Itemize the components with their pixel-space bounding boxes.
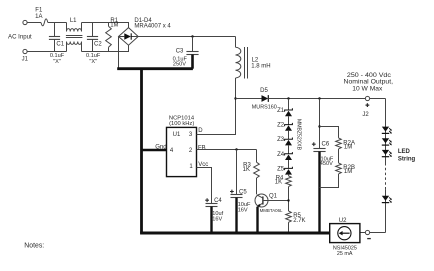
svg-text:1A: 1A	[35, 14, 42, 20]
pin 3	[189, 132, 193, 138]
label C4 rating 16V	[212, 217, 222, 223]
label Z3	[277, 137, 285, 143]
op-amp U1 NCP1014 body	[167, 127, 197, 176]
wire R4 to base node	[288, 187, 290, 211]
svg-text:FB: FB	[198, 145, 206, 151]
label C2 value 0.1uF	[86, 53, 101, 59]
wire Z4 to Z5	[288, 160, 290, 168]
label C1 class "X"	[53, 59, 61, 65]
polarity + of C5	[230, 190, 234, 194]
svg-text:Z4: Z4	[277, 152, 285, 158]
wire bridge positive output to L2	[138, 36, 235, 38]
label MURS160	[252, 105, 277, 111]
capacitor C4 (10uf 16V)	[206, 204, 218, 234]
svg-text:MURS160: MURS160	[252, 105, 277, 111]
label AC Input	[8, 33, 32, 40]
zener diode Z4	[285, 152, 293, 160]
label MMBZ52XXB (vertical)	[296, 119, 302, 150]
svg-text:U1: U1	[173, 132, 181, 138]
label Vcc	[198, 162, 208, 168]
label Z5	[277, 166, 285, 172]
LED 4	[382, 196, 392, 203]
label Gnd	[155, 144, 166, 150]
wire output line to Z1	[288, 99, 290, 111]
svg-text:1M: 1M	[110, 23, 118, 29]
wire ground vertical bus (thick)	[140, 69, 143, 234]
label R4	[276, 176, 284, 182]
label MMBTA06L	[260, 208, 283, 213]
svg-text:16V: 16V	[238, 208, 248, 214]
wire Z3 to Z4	[288, 145, 290, 153]
fuse F1	[41, 19, 48, 26]
label Notes:	[24, 241, 44, 250]
label J2	[362, 112, 369, 118]
label C6	[322, 141, 330, 147]
zener diode Z1	[285, 108, 293, 116]
node junction Q1 base / R4 / R5	[287, 199, 289, 201]
current regulator U2 NSI45025	[330, 224, 360, 243]
zener diode Z2	[285, 123, 293, 131]
wire Z5 to R4	[288, 175, 290, 176]
transistor Q1 MMBTA06L	[255, 194, 289, 207]
label 10 W Max	[352, 85, 383, 92]
label R5	[293, 213, 301, 219]
svg-text:250V: 250V	[173, 61, 186, 67]
svg-text:Notes:: Notes:	[24, 241, 44, 250]
label C3	[176, 49, 184, 55]
svg-text:1M: 1M	[344, 145, 352, 151]
resistor R5	[286, 211, 292, 222]
wire R2A to R2B	[338, 149, 340, 163]
label D (drain pin)	[198, 128, 203, 134]
label Z1	[277, 108, 285, 114]
label R3	[243, 162, 251, 168]
node junction C6 branch	[318, 97, 320, 99]
svg-text:U2: U2	[339, 218, 347, 224]
node junction FB/C5	[235, 148, 237, 150]
label C6 rating 450V	[320, 161, 333, 167]
svg-text:D: D	[198, 128, 203, 134]
wire output down through LED string (solid upper part)	[385, 99, 387, 164]
wire J2 negative to U2	[360, 232, 366, 234]
label F1	[35, 8, 43, 14]
svg-text:Q1: Q1	[269, 194, 278, 200]
svg-text:C5: C5	[239, 189, 247, 195]
svg-text:MMBZ52XXB: MMBZ52XXB	[296, 119, 302, 150]
label String (bold)	[398, 156, 416, 162]
resistor R2B	[336, 163, 342, 174]
wire LED4 to J2 negative terminal	[370, 232, 386, 234]
wire dashed end to LED 4	[385, 189, 387, 232]
node junction R2A branch	[318, 125, 320, 127]
connector J1 pin 1 (AC top terminal)	[23, 20, 27, 24]
bridge rectifier D1-D4	[119, 28, 139, 46]
wire bridge negative output down to ground bus	[118, 37, 120, 69]
wire drain pin 3 to L2/D5 node	[197, 99, 236, 135]
label J1	[22, 57, 29, 63]
label 25 mA	[337, 251, 353, 257]
label R5 value 2.7K	[293, 218, 305, 224]
label C2	[94, 41, 102, 47]
wire ground bus (thick)	[117, 67, 193, 70]
label D5	[260, 88, 268, 94]
capacitor C3	[186, 37, 198, 69]
label MRA4007 x 4	[134, 24, 171, 30]
svg-text:L1: L1	[70, 18, 77, 24]
label U1	[173, 132, 181, 138]
wire R5 to ground rail	[288, 222, 290, 233]
svg-text:16V: 16V	[212, 217, 222, 223]
svg-text:AC Input: AC Input	[8, 33, 32, 40]
label C3 rating 250V	[173, 61, 186, 67]
svg-text:Z2: Z2	[277, 123, 285, 129]
svg-text:1.8 mH: 1.8 mH	[251, 64, 270, 70]
label Z4	[277, 152, 285, 158]
capacitor C5 (10uF 16V)	[231, 150, 243, 234]
label C5 rating 16V	[238, 208, 248, 214]
label L2 value 1.8 mH	[251, 64, 270, 70]
polarity + of C6	[312, 142, 316, 146]
label R2B value 1M	[344, 169, 352, 175]
label Z2	[277, 123, 285, 129]
wire FB pin 2 to R3	[197, 149, 257, 151]
label C1 value 0.1uF	[50, 53, 65, 59]
svg-text:LED: LED	[398, 149, 411, 155]
label Nominal Output,	[344, 79, 394, 86]
svg-text:C2: C2	[94, 41, 102, 47]
wire L2 node to D5 anode	[236, 98, 262, 100]
svg-text:1K: 1K	[243, 167, 250, 173]
pin 2	[189, 148, 193, 154]
svg-text:0.1uF: 0.1uF	[50, 53, 65, 59]
wire R3 to Q1 collector	[256, 178, 258, 194]
capacitor C6 (10uF 450V)	[313, 99, 325, 234]
wire R2B to C6 lower branch	[320, 174, 339, 188]
svg-text:Z3: Z3	[277, 137, 285, 143]
wire dashed LED string continuation	[385, 163, 387, 189]
capacitor C1	[49, 23, 60, 52]
label LED (bold)	[398, 149, 411, 155]
wire AC line 2 from J1 to bridge	[27, 45, 128, 51]
label NSI45025	[333, 246, 357, 252]
svg-text:C1: C1	[56, 41, 64, 47]
polarity + at J2	[366, 103, 370, 107]
svg-text:Z5: Z5	[277, 166, 285, 172]
label R1	[110, 18, 118, 24]
label C4 value 10uf	[212, 211, 223, 217]
LED 1	[382, 127, 392, 134]
svg-text:C6: C6	[322, 141, 330, 147]
label NCP1014	[169, 116, 195, 122]
label Q1	[269, 194, 278, 200]
svg-text:1M: 1M	[344, 169, 352, 175]
label R2A	[343, 141, 355, 147]
label R1 value 1M	[110, 23, 118, 29]
inductor L2	[236, 37, 248, 99]
LED 2	[382, 138, 392, 145]
wire U1 Gnd pin 4 connection (thick)	[142, 149, 167, 152]
svg-text:C4: C4	[214, 198, 222, 204]
polarity + of C4	[205, 198, 209, 202]
label R4 value 1K	[275, 180, 282, 186]
svg-text:J1: J1	[22, 57, 29, 63]
label U2	[339, 218, 347, 224]
label L2	[252, 58, 259, 64]
label FB (feedback pin)	[198, 145, 206, 151]
zener diode Z3	[285, 138, 293, 146]
wire Q1 emitter to ground rail (thick)	[256, 207, 258, 234]
svg-text:(100 kHz): (100 kHz)	[169, 121, 194, 127]
wire Vcc pin 1 to C4	[197, 168, 212, 204]
resistor R1	[106, 23, 112, 52]
capacitor C2	[87, 23, 98, 52]
connector J1 pin 2 (AC bottom terminal)	[23, 49, 27, 53]
label R2B	[343, 165, 355, 171]
label 1A	[35, 14, 42, 20]
svg-text:MMBTA06L: MMBTA06L	[260, 208, 283, 213]
wire bottom ground rail (thick)	[140, 232, 330, 235]
node junction drain/L2/D5	[234, 97, 236, 99]
label R2A value 1M	[344, 145, 352, 151]
label C2 class "X"	[89, 59, 97, 65]
label L1	[70, 18, 77, 24]
inductor L1 (common-mode choke)	[66, 23, 83, 52]
svg-text:D5: D5	[260, 88, 268, 94]
label C1	[56, 41, 64, 47]
svg-text:10 W Max: 10 W Max	[352, 85, 383, 92]
wire output line D5 cathode to J2+ and LED string	[268, 98, 385, 100]
label D1-D4	[134, 18, 152, 24]
label (100 kHz)	[169, 121, 194, 127]
zener diode Z5	[285, 167, 293, 175]
svg-text:450V: 450V	[320, 161, 333, 167]
svg-text:1K: 1K	[275, 180, 282, 186]
label C5 value 10uF	[238, 202, 251, 208]
node junction at C3	[191, 35, 193, 37]
svg-text:J2: J2	[362, 112, 369, 118]
node junction zener string	[287, 97, 289, 99]
svg-text:String: String	[398, 156, 416, 162]
label 250 - 400 Vdc	[347, 72, 392, 79]
LED 3	[382, 150, 392, 157]
pin 4	[170, 148, 174, 154]
wire AC line 1 from J1 to fuse	[27, 22, 41, 24]
connector J2 positive terminal	[365, 96, 369, 100]
svg-text:F1: F1	[35, 8, 43, 14]
svg-text:"X": "X"	[89, 59, 97, 65]
polarity - at J2 negative	[367, 238, 371, 240]
svg-text:0.1uF: 0.1uF	[86, 53, 101, 59]
label R3 value 1K	[243, 167, 250, 173]
label C6 value 10uF	[321, 156, 334, 162]
resistor R3	[254, 150, 260, 179]
resistor R4	[286, 176, 292, 187]
svg-text:2.7K: 2.7K	[293, 218, 305, 224]
wire Z2 to Z3	[288, 131, 290, 139]
svg-text:C3: C3	[176, 49, 184, 55]
wire AC line 1 from fuse to bridge	[48, 23, 129, 28]
pin 1	[189, 164, 193, 170]
svg-text:"X": "X"	[53, 59, 61, 65]
connector J2 negative terminal	[365, 230, 369, 234]
svg-text:Gnd: Gnd	[155, 144, 166, 150]
wire Z1 to Z2	[288, 116, 290, 124]
wire C6 branch to R2A	[320, 127, 339, 138]
label C5	[239, 189, 247, 195]
label C4	[214, 198, 222, 204]
resistor R2A	[336, 138, 342, 149]
diode D5 MURS160	[262, 95, 269, 102]
svg-text:MRA4007 x 4: MRA4007 x 4	[134, 24, 171, 30]
svg-text:25 mA: 25 mA	[337, 251, 353, 257]
label C3 value 0.1uF	[173, 56, 188, 62]
svg-text:Z1: Z1	[277, 108, 285, 114]
